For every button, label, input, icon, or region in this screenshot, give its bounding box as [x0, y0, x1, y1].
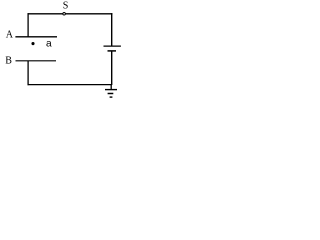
svg-text:B: B [5, 56, 12, 67]
svg-text:A: A [6, 29, 14, 40]
ground: long bar [105, 89, 117, 91]
wire: top wire right segment from switch to right rail [65, 13, 112, 15]
wire: vertical stub from contact A line up to top wire [27, 13, 29, 37]
ground: middle bar [108, 93, 114, 95]
ground: short bar [110, 96, 113, 98]
battery cell: long positive plate [104, 45, 121, 47]
wire: right rail from battery down to bottom wire junction [111, 52, 113, 86]
wire: right rail from top wire down to battery [111, 13, 113, 46]
battery cell: short negative plate [108, 50, 117, 52]
switch S pivot circle [63, 13, 66, 16]
contact A bar [15, 36, 57, 38]
svg-text:a: a [46, 39, 52, 51]
wire: vertical stub from contact B line down to bottom wire [27, 61, 29, 85]
svg-text:S: S [63, 1, 69, 12]
contact B bar [16, 60, 57, 62]
wire: bottom wire [28, 84, 113, 86]
wire: ground stub below bottom wire junction [110, 85, 112, 90]
wire: top wire left segment to switch [28, 13, 63, 15]
movable contact dot a [31, 42, 34, 45]
